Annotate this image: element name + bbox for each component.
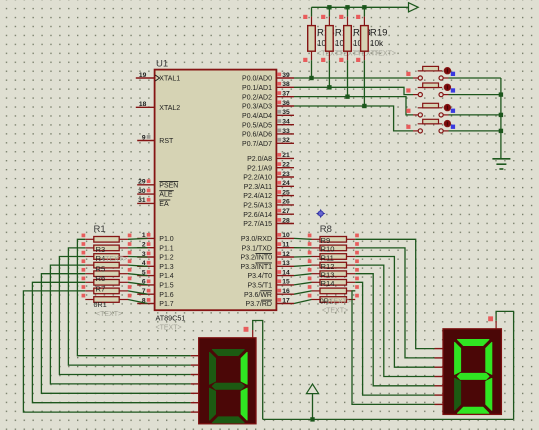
svg-text:R1: R1	[94, 224, 106, 235]
wire pin 15 to R8 row 6	[294, 282, 312, 285]
wire P1.1 to left display segment 2	[68, 248, 190, 365]
junction bus/button2	[499, 92, 503, 96]
pin 19 XTAL1	[136, 72, 180, 83]
pin 1 P1.0	[137, 232, 174, 243]
pin 7 P1.6	[137, 288, 174, 299]
svg-text:R7: R7	[96, 285, 106, 294]
svg-text:26: 26	[282, 199, 290, 206]
push button SW4	[406, 119, 455, 133]
svg-text:P2.2/A10: P2.2/A10	[243, 175, 272, 182]
pin 25 P2.4/A12	[243, 189, 294, 200]
junction on VCC rail at R17 column	[327, 5, 331, 9]
chip U1 AT89C51 body	[155, 70, 277, 311]
junction P0.3/R19	[362, 104, 366, 108]
pin 3 P1.2	[137, 251, 174, 262]
svg-text:17: 17	[282, 297, 290, 304]
svg-text:28: 28	[282, 217, 290, 224]
svg-text:33: 33	[282, 128, 290, 135]
svg-text:38: 38	[282, 81, 290, 88]
resistor R1 pack row 6	[82, 277, 132, 286]
svg-text:27: 27	[282, 208, 290, 215]
wire R1 row 6 to pin 6	[128, 282, 148, 285]
pin 33 P0.6/AD6	[242, 128, 294, 139]
svg-text:P2.6/A14: P2.6/A14	[243, 212, 272, 219]
svg-text:<TEXT>: <TEXT>	[325, 299, 351, 306]
svg-text:0R1: 0R1	[94, 300, 107, 309]
resistor R1 pack row 5	[82, 268, 132, 277]
resistor R1 pack row 1	[82, 234, 132, 243]
svg-text:P3.2/INT0: P3.2/INT0	[240, 255, 272, 262]
label chip <TEXT>	[156, 325, 182, 332]
svg-text:P3.6/WR: P3.6/WR	[244, 292, 272, 299]
label U1	[156, 59, 168, 70]
wire R8 row 2 to right display segment 2	[355, 248, 434, 358]
resistor R16 10k	[303, 7, 343, 78]
label R8	[320, 224, 332, 235]
pin 13 P3.3/INT1	[240, 260, 294, 271]
pin 4 P1.3	[137, 260, 174, 271]
labels R3-R7 (overlapping)	[96, 245, 128, 294]
junction on VCC rail at R18 column	[345, 5, 349, 9]
blue origin marker diamond	[316, 209, 326, 219]
wire button 2 to ground bus	[449, 94, 501, 96]
svg-text:23: 23	[282, 171, 290, 178]
svg-text:P1.5: P1.5	[159, 283, 174, 290]
svg-text:PSEN: PSEN	[159, 182, 178, 189]
wire R1 row 3 to pin 3	[128, 256, 148, 259]
pin 38 P0.1/AD1	[242, 81, 294, 92]
svg-text:R6: R6	[96, 274, 106, 283]
wire right display common to bottom rail	[496, 311, 513, 419]
pin 24 P2.3/A11	[244, 180, 294, 191]
pin 6 P1.5	[137, 279, 174, 290]
svg-text:P2.5/A13: P2.5/A13	[243, 203, 272, 210]
label <TEXT> (right pack) 2	[322, 308, 348, 315]
resistor R8 pack row 3	[308, 251, 359, 260]
pin 30 ALE	[137, 188, 174, 199]
svg-text:10k: 10k	[370, 39, 384, 48]
push button SW3	[406, 103, 455, 117]
svg-text:P1.1: P1.1	[159, 245, 174, 252]
resistor R1 pack row 4	[82, 259, 132, 268]
wire R8 row 6 to right display segment 6	[355, 282, 434, 395]
push button SW1	[406, 66, 455, 80]
pin 35 P0.4/AD4	[242, 109, 294, 120]
pin 9 RST	[137, 134, 174, 145]
wire P0.3 (pin36) to button 4	[294, 106, 413, 131]
wire R1 row 5 to pin 5	[128, 274, 148, 276]
pin 15 P3.5/T1	[247, 279, 294, 290]
svg-text:11: 11	[282, 242, 289, 249]
svg-text:P2.3/A11: P2.3/A11	[244, 184, 272, 191]
wire R1 row 2 to pin 2	[128, 247, 148, 249]
wire P0.1 (pin38) to button 2	[294, 87, 413, 94]
svg-text:25: 25	[282, 189, 290, 196]
pin 23 P2.2/A10	[243, 171, 294, 182]
wire P1.3 to left display segment 4	[50, 265, 190, 384]
wire button 1 to ground bus	[449, 77, 501, 79]
svg-text:P2.4/A12: P2.4/A12	[243, 193, 272, 200]
wire R8 row 3 to right display segment 3	[355, 257, 434, 368]
svg-text:31: 31	[138, 197, 146, 204]
junction bus/button4	[499, 129, 503, 133]
junction P0.0/R16	[309, 76, 313, 80]
pin 34 P0.5/AD5	[242, 118, 294, 129]
wire P1.2 to left display segment 3	[59, 257, 190, 375]
wire R1 row 1 to pin 1	[128, 237, 148, 240]
svg-text:21: 21	[282, 152, 290, 159]
label R1	[94, 224, 106, 235]
junction P0.1/R17	[327, 85, 331, 89]
junction bus/button3	[499, 113, 503, 117]
pin 18 XTAL2	[136, 101, 180, 112]
pin 31 EA	[137, 197, 170, 208]
pin 26 P2.5/A13	[243, 199, 294, 210]
push button SW2	[406, 83, 455, 97]
svg-text:P1.2: P1.2	[159, 255, 174, 262]
svg-text:P3.3/INT1: P3.3/INT1	[240, 264, 272, 271]
svg-text:P0.3/AD3: P0.3/AD3	[242, 104, 272, 111]
svg-text:RST: RST	[159, 138, 174, 145]
pin 36 P0.3/AD3	[242, 100, 294, 111]
resistor R1 pack row 8	[82, 294, 132, 303]
7-segment display right (shows 9)	[435, 329, 502, 415]
svg-text:R5: R5	[96, 265, 106, 274]
wire R8 row 4 to right display segment 4	[355, 265, 434, 376]
wire pin 13 to R8 row 4	[294, 265, 312, 266]
wire R1 row 8 to pin 8	[128, 300, 148, 304]
svg-text:15: 15	[282, 279, 290, 286]
svg-text:P3.7/RD: P3.7/RD	[246, 301, 272, 308]
wire button 3 to ground bus	[449, 114, 501, 116]
resistor R1 pack row 7	[82, 285, 132, 294]
svg-text:<TEXT>: <TEXT>	[101, 256, 127, 263]
pin 17 P3.7/RD	[246, 297, 294, 308]
pin 21 P2.0/A8	[247, 152, 294, 163]
wire pin 10 to R8 row 1	[294, 237, 312, 240]
labels R9-R14 (overlapping)	[321, 236, 335, 288]
svg-text:P0.5/AD5: P0.5/AD5	[242, 122, 272, 129]
svg-text:30: 30	[138, 188, 146, 195]
resistor R8 pack row 4	[308, 259, 359, 268]
svg-text:12: 12	[282, 251, 290, 258]
svg-text:P0.0/AD0: P0.0/AD0	[242, 76, 272, 83]
resistor R8 pack row 8	[308, 294, 359, 303]
red marker left display	[244, 327, 249, 332]
svg-text:P0.2/AD2: P0.2/AD2	[242, 94, 272, 101]
pin 28 P2.7/A15	[243, 217, 294, 228]
svg-text:32: 32	[282, 137, 290, 144]
svg-text:P1.0: P1.0	[159, 236, 174, 243]
resistor R1 pack row 2	[82, 242, 132, 251]
svg-text:R3: R3	[96, 245, 106, 254]
pin 5 P1.4	[137, 269, 174, 280]
svg-text:P0.4/AD4: P0.4/AD4	[242, 113, 272, 120]
pin 37 P0.2/AD2	[242, 90, 294, 101]
resistor R19 10k	[356, 7, 396, 106]
svg-text:16: 16	[282, 288, 290, 295]
svg-text:P2.7/A15: P2.7/A15	[243, 221, 272, 228]
svg-text:P0.1/AD1: P0.1/AD1	[242, 85, 272, 92]
svg-text:P3.1/TXD: P3.1/TXD	[242, 245, 272, 252]
svg-text:<TEXT>: <TEXT>	[322, 308, 348, 315]
pin 16 P3.6/WR	[244, 288, 294, 299]
label <TEXT> (right pack) 1	[325, 299, 351, 306]
pin 11 P3.1/TXD	[242, 242, 294, 253]
svg-text:34: 34	[282, 118, 290, 125]
svg-text:XTAL1: XTAL1	[159, 76, 180, 83]
resistor R8 pack row 5	[308, 268, 359, 277]
svg-text:P1.3: P1.3	[159, 264, 174, 271]
svg-text:39: 39	[282, 72, 290, 79]
ground bus vertical wire	[500, 78, 502, 159]
pin 8 P1.7	[137, 297, 174, 308]
svg-text:ALE: ALE	[159, 192, 173, 199]
pin 27 P2.6/A14	[243, 208, 294, 219]
svg-text:R8: R8	[320, 224, 332, 235]
pin 12 P3.2/INT0	[240, 251, 294, 262]
svg-text:P2.1/A9: P2.1/A9	[247, 165, 272, 172]
svg-text:22: 22	[282, 162, 290, 169]
wire P1.5 to left display segment 6	[32, 282, 190, 402]
svg-text:P0.7/AD7: P0.7/AD7	[242, 141, 272, 148]
svg-text:U1: U1	[156, 59, 168, 70]
power symbol arrow (top right)	[409, 3, 419, 12]
junction on VCC rail at R19 column	[362, 5, 366, 9]
pin 14 P3.4/T0	[247, 269, 294, 280]
pin 2 P1.1	[137, 242, 174, 253]
wire R8 row 1 to right display segment 1	[355, 239, 434, 348]
label AT89C51	[156, 314, 186, 323]
svg-text:35: 35	[282, 109, 290, 116]
svg-text:18: 18	[139, 101, 147, 108]
svg-text:29: 29	[138, 179, 146, 186]
svg-text:P0.6/AD6: P0.6/AD6	[242, 132, 272, 139]
svg-text:XTAL2: XTAL2	[159, 105, 180, 112]
wire R1 row 4 to pin 4	[128, 265, 148, 266]
junction bottom rail/power	[310, 417, 314, 421]
resistor R8 pack row 2	[308, 242, 359, 251]
svg-text:EA: EA	[159, 201, 169, 208]
svg-text:9: 9	[142, 134, 146, 141]
svg-text:P1.4: P1.4	[159, 273, 174, 280]
svg-text:P1.6: P1.6	[159, 292, 174, 299]
pin 10 P3.0/RXD	[241, 232, 294, 243]
label 0R1 (left pack)	[94, 300, 107, 309]
resistor R8 pack row 6	[308, 277, 359, 286]
svg-text:14: 14	[282, 269, 290, 276]
svg-text:P3.4/T0: P3.4/T0	[247, 273, 272, 280]
resistor R18 10k	[339, 7, 379, 96]
svg-text:P2.0/A8: P2.0/A8	[247, 156, 272, 163]
pin 32 P0.7/AD7	[242, 137, 294, 148]
svg-text:<TEXT>: <TEXT>	[156, 325, 182, 332]
svg-text:P1.7: P1.7	[159, 301, 174, 308]
wire R1 row 7 to pin 7	[128, 291, 148, 294]
svg-text:13: 13	[282, 260, 290, 267]
power rail VCC (top)	[312, 6, 409, 8]
wire P1.0 to left display segment 1	[77, 239, 190, 355]
wire P0.2 (pin37) to button 3	[294, 97, 413, 115]
svg-text:<TEXT>: <TEXT>	[96, 311, 122, 318]
wire pin 14 to R8 row 5	[294, 274, 312, 276]
wire P1.6 to left display segment 7	[23, 291, 190, 412]
resistor R8 pack row 1	[308, 234, 359, 243]
svg-text:<TEXT>: <TEXT>	[370, 51, 396, 58]
resistor R17 10k	[321, 7, 361, 87]
label <TEXT> (left pack)	[96, 311, 122, 318]
svg-text:37: 37	[282, 90, 290, 97]
ground symbol	[492, 159, 510, 169]
wire button 4 to ground bus	[449, 130, 501, 132]
wire pin 12 to R8 row 3	[294, 256, 312, 259]
svg-text:10: 10	[282, 232, 290, 239]
power symbol arrow (bottom)	[306, 384, 318, 419]
svg-text:36: 36	[282, 100, 290, 107]
wire R8 row 7 to right display segment 7	[352, 291, 435, 405]
svg-text:R14: R14	[321, 279, 335, 288]
pin 29 PSEN	[137, 179, 178, 190]
svg-text:P3.5/T1: P3.5/T1	[247, 283, 272, 290]
svg-text:24: 24	[282, 180, 290, 187]
7-segment display left (shows 1)	[191, 338, 256, 424]
label 0R1 (right pack)	[320, 297, 333, 306]
resistor R1 pack row 3	[82, 251, 132, 260]
wire left display common to bottom rail	[253, 321, 263, 420]
resistor R8 pack row 7	[308, 285, 359, 294]
svg-text:P3.0/RXD: P3.0/RXD	[241, 236, 272, 243]
svg-text:AT89C51: AT89C51	[156, 314, 186, 323]
red marker right display	[488, 316, 493, 321]
svg-text:R19: R19	[370, 28, 388, 39]
wire P1.4 to left display segment 5	[41, 274, 190, 394]
wire P0.0 (pin39) to button 1	[294, 77, 413, 79]
junction P0.2/R18	[345, 94, 349, 98]
wire pin 16 to R8 row 7	[294, 291, 312, 294]
wire R8 row 5 to right display segment 5	[355, 274, 434, 386]
wire pin 11 to R8 row 2	[294, 247, 312, 249]
pin 22 P2.1/A9	[247, 162, 294, 173]
svg-text:19: 19	[139, 72, 147, 79]
wire pin 17 to R8 row 8	[294, 300, 312, 304]
bottom common rail wire	[263, 418, 514, 420]
pin 39 P0.0/AD0	[242, 72, 294, 83]
